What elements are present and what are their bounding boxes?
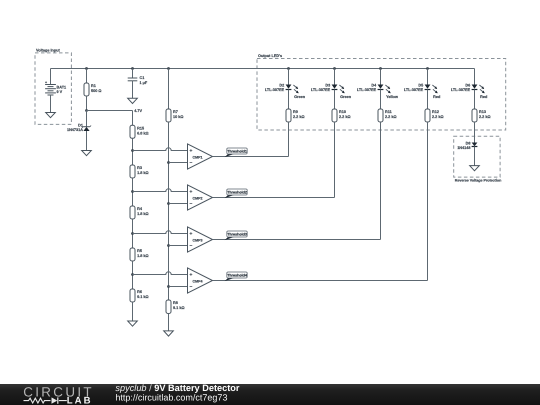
svg-text:6.8 kΩ: 6.8 kΩ [137,131,149,135]
ground (battery) [46,113,56,118]
svg-text:+: + [190,190,193,195]
junction ladder node 1 [131,149,134,152]
wire minus input CMP2 [169,203,188,205]
svg-text:LTL-307EE: LTL-307EE [311,88,331,92]
svg-text:1 µF: 1 µF [140,81,148,85]
resistor R3 [130,165,149,178]
junction chain tap 3 [167,244,170,247]
wire R7 chain [168,122,170,300]
svg-text:R8: R8 [173,301,178,305]
annotation box Voltage Input [35,48,71,124]
junction ladder node 3 [131,232,134,235]
wire R6 to ground [132,302,134,321]
svg-text:CMP1: CMP1 [193,155,203,159]
wire ladder above R4 [132,192,134,207]
svg-text:R1: R1 [91,84,96,88]
flag Threshold4 [225,272,248,281]
junction ladder node 2 [131,190,134,193]
svg-text:CMP2: CMP2 [193,196,203,200]
svg-text:LTL-307EE: LTL-307EE [404,88,424,92]
wire LED D6 to R13 [474,90,476,110]
resistor R5 [130,248,149,261]
resistor R9 2.2k [286,109,305,122]
svg-text:LTL-307EE: LTL-307EE [451,88,471,92]
svg-text:Threshold3: Threshold3 [227,233,247,237]
svg-text:D3: D3 [325,83,330,87]
svg-text:LTL-307EE: LTL-307EE [265,88,285,92]
svg-text:D8: D8 [466,141,471,145]
flag Threshold2 [225,189,248,198]
svg-text:1N4148: 1N4148 [457,146,470,150]
ground (C1) [128,98,138,103]
junction chain tap 1 [167,161,170,164]
wire rail to LED D5 [427,69,429,85]
junction rail LED column 1 [287,67,290,70]
wire LED D4 to R11 [380,90,382,110]
wire R1 to node [86,96,88,111]
svg-text:D1: D1 [78,123,83,127]
junction rail-C1 [131,67,134,70]
svg-text:CMP4: CMP4 [193,279,203,283]
svg-text:R7: R7 [173,110,178,114]
svg-text:−: − [190,202,193,207]
wire rail to LED D6 [474,69,476,85]
resistor R4 [130,206,149,219]
CircuitLab logo resistor-diode squiggle [24,397,67,403]
svg-text:+: + [45,80,47,84]
svg-text:R5: R5 [137,249,142,253]
wire ladder above R5 [132,234,134,249]
wire battery riser [50,69,52,85]
ground (R8) [164,331,174,336]
annotation box Reverse Voltage Protection [454,136,502,182]
node label 4.7V [134,109,142,113]
svg-text:D5: D5 [418,83,423,87]
svg-text:Green: Green [294,95,306,99]
wire R15 to node1 [132,138,134,150]
svg-text:R4: R4 [137,207,143,211]
svg-text:−: − [190,285,193,290]
junction chain tap 2 [167,202,170,205]
wire rail to LED D4 [380,69,382,85]
wire R8 to ground [168,314,170,331]
svg-text:−: − [190,244,193,249]
wire ladder above R6 [132,275,134,290]
wire rail to R7 [168,69,170,110]
junction rail LED column 3 [379,67,382,70]
svg-text:Reverse Voltage Protection: Reverse Voltage Protection [455,179,501,183]
junction chain tap 4 [167,285,170,288]
svg-text:R9: R9 [293,110,298,114]
svg-text:R6: R6 [137,290,142,294]
svg-text:R15: R15 [137,127,144,131]
junction rail-R7 [167,67,170,70]
wire CMP3 output [213,239,381,241]
svg-text:D2: D2 [279,83,284,87]
wire LED D2 to R9 [288,90,290,110]
svg-text:Red: Red [480,95,488,99]
capacitor C1 1uF [128,76,148,85]
svg-text:BAT1: BAT1 [57,85,67,89]
CircuitLab logo wordmark CIRCUIT [23,384,94,399]
ground (D1) [82,151,92,156]
svg-text:LTL-307EE: LTL-307EE [357,88,377,92]
wire CMP1 output [213,156,289,158]
wire ladder above R3 [132,151,134,166]
op-amp CMP3 [188,227,213,252]
op-amp CMP4 [188,268,213,293]
svg-text:2.2 kΩ: 2.2 kΩ [385,115,397,119]
junction rail LED column 2 [333,67,336,70]
wire 4.7V node to ladder [87,111,133,126]
svg-text:2.2 kΩ: 2.2 kΩ [479,115,491,119]
svg-text:C1: C1 [140,76,145,80]
wire plus input CMP3 (hop over chain) [133,231,188,234]
svg-text:D4: D4 [371,83,377,87]
footer bar [0,384,540,405]
LED D4 LTL-307EE Yellow [357,83,398,99]
svg-text:Red: Red [433,95,441,99]
svg-text:1N4731A: 1N4731A [67,128,83,132]
junction ladder node 4 [131,273,134,276]
svg-text:1.8 kΩ: 1.8 kΩ [137,254,149,258]
wire plus input CMP2 (hop over chain) [133,189,188,192]
svg-text:Threshold4: Threshold4 [227,274,248,278]
wire R10 down to CMP2 output [334,122,336,198]
resistor R13 2.2k [472,109,491,122]
LED D6 LTL-307EE Red [451,83,488,99]
op-amp CMP2 [188,185,213,210]
wire ladder below R3 [132,178,134,192]
op-amp CMP1 [188,144,213,169]
wire D8 to ground [474,147,476,166]
svg-text:R3: R3 [137,166,142,170]
svg-text:Voltage Input: Voltage Input [36,48,60,52]
flag Threshold1 [225,148,248,157]
wire ladder below R5 [132,261,134,275]
svg-text:LAB: LAB [67,395,93,405]
wire D1 to ground [86,131,88,151]
battery BAT1 9V [45,80,66,95]
resistor R11 2.2k [378,109,397,122]
wire C1 to ground [132,81,134,99]
LED D5 LTL-307EE Red [404,83,441,99]
svg-text:R11: R11 [385,110,392,114]
wire LED D5 to R12 [427,90,429,110]
svg-text:2.2 kΩ: 2.2 kΩ [339,115,351,119]
wire CMP4 output [213,280,428,282]
svg-text:10 kΩ: 10 kΩ [173,115,183,119]
svg-text:Output LED's: Output LED's [258,54,282,58]
resistor R12 2.2k [425,109,444,122]
wire rail to LED D2 [288,69,290,85]
wire R9 down to CMP1 output [288,122,290,157]
wire minus input CMP1 [169,162,188,164]
svg-text:−: − [190,161,193,166]
junction 4.7V node [85,109,88,112]
svg-text:D6: D6 [465,83,470,87]
svg-text:9.1 kΩ: 9.1 kΩ [137,295,149,299]
wire rail to C1 [132,69,134,78]
CircuitLab logo wordmark LAB [67,395,93,405]
svg-text:R10: R10 [339,110,346,114]
annotation box Output LEDs [257,54,506,130]
svg-text:+: + [190,149,193,154]
footer url line [115,393,227,403]
ground (ladder) [128,321,138,326]
svg-text:R13: R13 [479,110,486,114]
resistor R8 9.1k [166,300,185,314]
svg-text:4.7V: 4.7V [134,109,142,113]
svg-text:R12: R12 [432,110,439,114]
svg-text:+: + [190,273,193,278]
LED D2 LTL-307EE Green [265,83,306,99]
wire LED D3 to R10 [334,90,336,110]
resistor R15 6.8k [130,125,149,138]
wire top supply rail [51,68,475,70]
flag Threshold3 [225,231,248,240]
wire R13 down to D8 [474,122,476,143]
zener diode D1 1N4731A [67,111,91,133]
wire minus input CMP3 [169,245,188,247]
wire rail to LED D3 [334,69,336,85]
svg-text:500 Ω: 500 Ω [91,89,101,93]
svg-text:Threshold2: Threshold2 [227,191,247,195]
svg-text:CMP3: CMP3 [193,238,203,242]
svg-text:1.8 kΩ: 1.8 kΩ [137,171,149,175]
svg-text:http://circuitlab.com/ct7eg73: http://circuitlab.com/ct7eg73 [115,393,227,403]
resistor R7 10k [166,109,183,122]
diode D8 1N4148 [457,141,477,150]
wire ladder below R4 [132,219,134,234]
junction rail-R1 [85,67,88,70]
wire minus input CMP4 [169,286,188,288]
ground (D8) [470,166,480,171]
footer title line [115,383,240,393]
svg-text:+: + [190,232,193,237]
wire plus input CMP4 (hop over chain) [133,272,188,275]
resistor R6 [130,289,149,302]
wire rail to R1 [86,69,88,84]
svg-text:9.1 kΩ: 9.1 kΩ [173,306,185,310]
LED D3 LTL-307EE Green [311,83,352,99]
wire CMP2 output [213,197,335,199]
svg-text:Yellow: Yellow [386,95,398,99]
resistor R10 2.2k [332,109,351,122]
svg-text:Threshold1: Threshold1 [227,150,247,154]
svg-text:1.8 kΩ: 1.8 kΩ [137,212,149,216]
resistor R1 500 [84,83,101,96]
wire R12 down to CMP4 output [427,122,429,281]
wire battery to ground [50,95,52,113]
wire plus input CMP1 (hop over chain) [133,148,188,151]
svg-text:Green: Green [340,95,352,99]
svg-text:2.2 kΩ: 2.2 kΩ [432,115,444,119]
svg-text:2.2 kΩ: 2.2 kΩ [293,115,305,119]
wire R11 down to CMP3 output [380,122,382,240]
junction rail LED column 4 [426,67,429,70]
svg-text:9 V: 9 V [57,90,63,94]
